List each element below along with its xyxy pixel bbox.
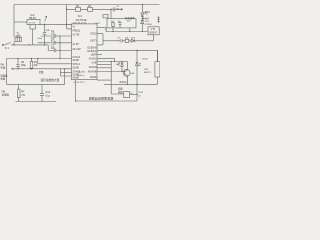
junction (64.7,68.8) [64, 68, 65, 69]
junction (60,58.5) [59, 58, 60, 59]
svg-text:C12: C12 [45, 90, 50, 94]
svg-text:2CW54: 2CW54 [145, 24, 153, 26]
regulator IC2 78L05 [27, 19, 40, 24]
svg-text:3DU12: 3DU12 [119, 82, 127, 84]
svg-text:0.1µ: 0.1µ [45, 95, 50, 97]
junction (31.5,58.5) [31, 58, 32, 59]
svg-text:SYNC0: SYNC0 [73, 57, 81, 59]
svg-text:A AB: A AB [92, 62, 97, 65]
svg-text:E1/B1(4): E1/B1(4) [88, 51, 97, 53]
svg-text:14 15 16 17 18: 14 15 16 17 18 [73, 22, 87, 24]
junction (127.5,84.4) [127, 84, 128, 85]
svg-text:SYNC1: SYNC1 [73, 64, 81, 66]
wire row B [38, 59, 72, 64]
svg-text:KHX/KB: KHX/KB [88, 72, 97, 74]
wire top rail [14, 4, 160, 6]
svg-text:OSC2: OSC2 [90, 33, 97, 35]
wire mid bus [110, 62, 112, 81]
wire R row [67, 8, 114, 10]
junction (66.5,24.3) [66, 24, 67, 25]
svg-text:SGND: SGND [73, 67, 80, 69]
junction (75.6,101) [75, 100, 76, 101]
svg-text:VD6: VD6 [144, 69, 149, 71]
junction (137,50.3) [136, 50, 137, 51]
svg-text:(OUT): (OUT) [90, 41, 96, 43]
wire pin50 [97, 49, 158, 51]
svg-text:调频自动搜索电路: 调频自动搜索电路 [89, 96, 114, 101]
wire left ground rail [7, 83, 65, 85]
svg-text:R7: R7 [21, 90, 25, 94]
svg-text:FREQ1: FREQ1 [73, 31, 81, 33]
wire mid rail [106, 28, 148, 32]
svg-text:+5V: +5V [145, 18, 150, 21]
svg-text:100µ: 100µ [37, 38, 42, 40]
wire pin67 [97, 67, 111, 69]
junction (137,84.4) [136, 84, 137, 85]
svg-text:BG317: BG317 [144, 72, 152, 74]
svg-text:BG547: BG547 [150, 32, 158, 34]
svg-text:IC3: IC3 [127, 21, 131, 23]
svg-text:VD4: VD4 [131, 38, 136, 40]
resistor R5 [125, 39, 129, 42]
wire stubs rows D E [61, 69, 72, 76]
svg-text:AL TIE: AL TIE [73, 34, 80, 37]
svg-text:E1/B1(4): E1/B1(4) [88, 47, 97, 49]
junction (14,44.9) [13, 44, 14, 45]
wire pin27 [97, 28, 106, 32]
wire top feed [67, 5, 72, 29]
svg-text:103: 103 [51, 33, 56, 35]
svg-text:调谐: 调谐 [118, 86, 123, 90]
svg-text:78L05: 78L05 [29, 16, 37, 20]
svg-text:AL SH: AL SH [73, 43, 80, 46]
svg-text:47k: 47k [21, 95, 26, 97]
wire pin54 stub [97, 53, 102, 55]
diode VD4 [131, 39, 134, 42]
svg-text:SGND: SGND [73, 60, 80, 62]
wire row A [7, 58, 72, 60]
capacitor C3 [48, 45, 71, 52]
junction (37.8,58.5) [37, 58, 38, 59]
svg-text:OSC1: OSC1 [95, 23, 102, 25]
resistor R4 [112, 22, 114, 26]
svg-text:9045: 9045 [16, 36, 22, 38]
zener VD5 [140, 20, 144, 31]
transistor box VT5 [148, 27, 159, 35]
junction (31.5,68.8) [31, 68, 32, 69]
switch K1 [5, 42, 10, 44]
svg-text:T1: T1 [16, 31, 20, 35]
svg-text:C4: C4 [46, 28, 50, 32]
svg-text:VT5: VT5 [151, 29, 156, 31]
svg-text:C5: C5 [21, 60, 25, 64]
junction (122,61.5) [121, 61, 122, 62]
wire photo row [97, 61, 128, 63]
component T2 box [124, 92, 130, 98]
svg-text:C9: C9 [118, 38, 122, 40]
node out arrow [121, 8, 123, 10]
svg-text:收器: 收器 [0, 77, 5, 81]
svg-text:K 1: K 1 [5, 46, 9, 50]
wire lower-left ground rail [16, 101, 57, 103]
svg-text:调谐器: 调谐器 [2, 93, 10, 97]
text labels [0, 6, 157, 100]
wire pin33 [97, 34, 103, 41]
LED1 chain [141, 5, 143, 14]
IC pin labels right column [88, 33, 98, 79]
wire row C [13, 68, 72, 70]
wire pin45 [97, 41, 103, 45]
junction (18,58.5) [17, 58, 18, 59]
resistor R3 [88, 7, 93, 11]
svg-text:SGND: SGND [90, 77, 97, 79]
svg-text:20k: 20k [34, 65, 39, 67]
wire right ground rail [104, 83, 157, 85]
junction (60,36) [59, 35, 60, 36]
receiver box IC3 [107, 19, 136, 28]
node Vcc arrow [45, 16, 47, 21]
svg-text:AUVOL: AUVOL [89, 57, 97, 60]
capacitor C8 [118, 22, 121, 28]
svg-text:2CW: 2CW [138, 92, 144, 94]
svg-text:DAC/IN: DAC/IN [89, 66, 97, 69]
svg-text:54: 54 [138, 95, 141, 97]
wire left vertical [13, 5, 15, 38]
capacitor C2 [38, 41, 72, 44]
wire 5V output [40, 23, 72, 25]
junction (60,42.8) [59, 42, 60, 43]
wire switch row [4, 44, 49, 46]
resistor R2 [76, 7, 81, 11]
junction (113,31.5) [112, 31, 113, 32]
capacitor C12 [40, 84, 44, 101]
svg-text:SGND: SGND [73, 78, 80, 80]
svg-text:KHX××↓: KHX××↓ [78, 74, 86, 77]
IC pin labels left column [73, 27, 82, 80]
junction (114.6,61.5) [114, 61, 115, 62]
wire row 40 [103, 40, 154, 42]
svg-text:LED: LED [131, 73, 136, 75]
wire pin80 [97, 80, 124, 94]
transistor VT4 [123, 69, 130, 76]
svg-text:8 9 10 11 12: 8 9 10 11 12 [74, 82, 86, 84]
capacitor C4 [43, 24, 46, 45]
svg-text:LED4: LED4 [91, 54, 97, 56]
junction (29.2,44.9) [29, 44, 30, 45]
svg-text:DAC/IN↓: DAC/IN↓ [78, 70, 86, 73]
capacitor C7 [113, 8, 121, 12]
junction dots [13, 4, 143, 102]
svg-text:C1: C1 [51, 29, 55, 33]
IC1 main box [72, 24, 98, 80]
capacitor C5 [16, 59, 19, 69]
LED2 diode [136, 50, 139, 101]
junction (66.5,9.3) [66, 9, 67, 10]
junction (142.3,4.5) [142, 4, 143, 5]
node +5V arrow [142, 18, 146, 19]
capacitor C9 [120, 39, 122, 42]
svg-text:IN OUT: IN OUT [29, 23, 36, 25]
junction (111.2,61.5) [111, 61, 112, 62]
junction (142.3,18.5) [142, 18, 143, 19]
svg-text:接收组件: 接收组件 [125, 16, 136, 20]
svg-text:SE CAP: SE CAP [73, 48, 82, 51]
junction (142.3,31.5) [142, 31, 143, 32]
transformer T1 [15, 37, 22, 41]
svg-text:天线: 天线 [0, 66, 5, 70]
junction (44.5,44.9) [44, 44, 45, 45]
junction (111,9.3) [110, 9, 111, 10]
junction (137,94.4) [136, 94, 137, 95]
wire gnd drop [64, 69, 66, 85]
junction (122,71.5) [121, 71, 122, 72]
svg-text:100µ: 100µ [21, 65, 27, 67]
svg-text:LED3: LED3 [144, 11, 151, 14]
svg-text:VD7: VD7 [115, 64, 120, 66]
resistor R8 box [155, 62, 160, 77]
filter box [103, 15, 108, 18]
junction (18,68.8) [17, 68, 18, 69]
connector right edge [157, 17, 159, 24]
wire into rx box [110, 9, 112, 18]
svg-text:音量: 音量 [39, 70, 45, 74]
svg-text:遥控接收放大器: 遥控接收放大器 [41, 78, 60, 82]
wire gnd bus [59, 36, 61, 59]
svg-text:C2: C2 [51, 36, 55, 40]
junction (60,50.5) [59, 50, 60, 51]
svg-text:LED2: LED2 [142, 58, 148, 60]
svg-text:472: 472 [51, 41, 56, 43]
junction (129.8,31.5) [129, 31, 130, 32]
svg-text:104: 104 [51, 48, 56, 50]
wire bottom rail [76, 80, 137, 101]
svg-text:V+: V+ [73, 27, 77, 29]
svg-text:C3: C3 [51, 44, 55, 48]
wire pin64 [97, 64, 111, 66]
resistor R1 [31, 59, 33, 69]
capacitor C1 [45, 34, 72, 37]
photodiode VD3 [121, 62, 124, 72]
resistor R7 [18, 84, 20, 101]
svg-text:R1: R1 [34, 60, 38, 64]
wire pin58 [97, 59, 115, 62]
junction (44.5,24.3) [44, 24, 45, 25]
